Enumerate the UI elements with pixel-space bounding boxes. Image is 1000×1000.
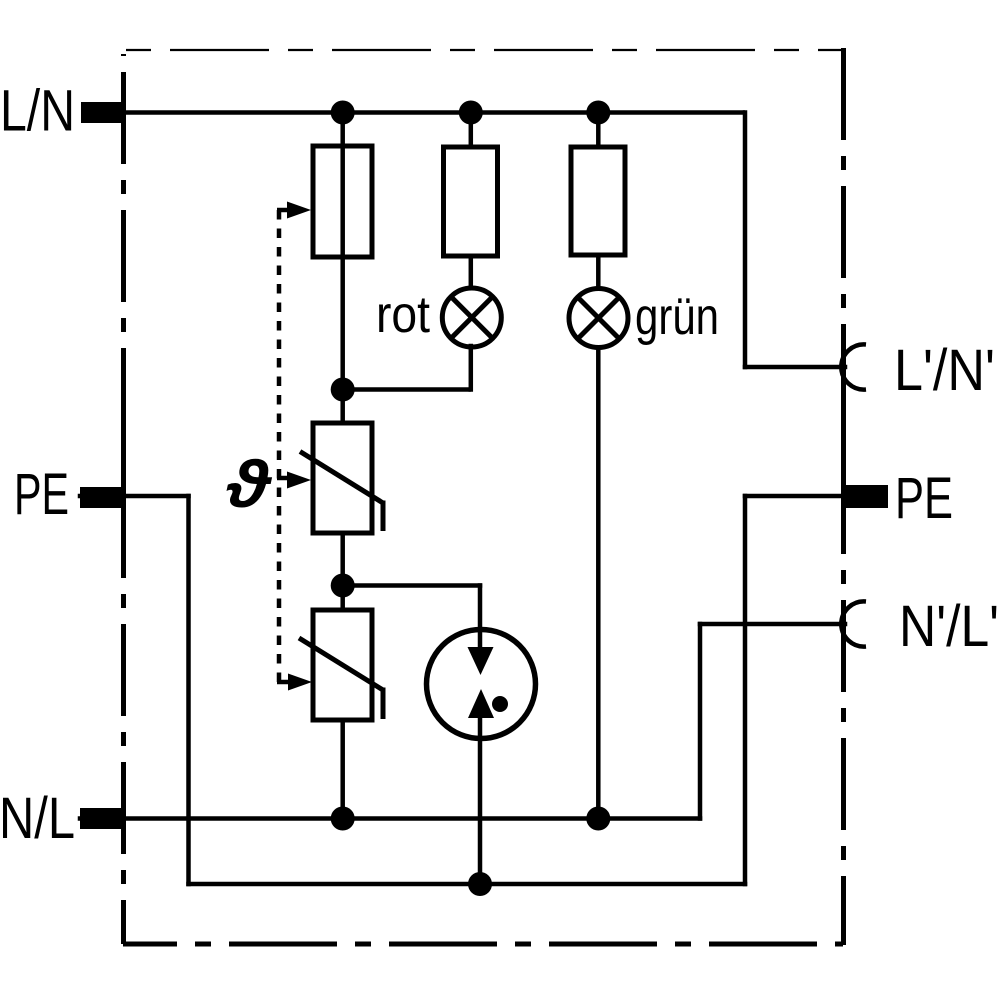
wire rot lamp down [469, 346, 474, 390]
varistor RV2 [299, 610, 383, 720]
thermal jog middle [277, 476, 290, 481]
gas discharge tube GDT [427, 630, 536, 739]
enclosure border top [126, 49, 843, 51]
wire to L'/N' terminal [745, 365, 845, 370]
resistor gruen branch [571, 147, 625, 255]
wire PE left [80, 494, 189, 499]
wire PE up right [743, 496, 748, 884]
wire varistor1 bottom to node [340, 533, 345, 610]
enclosure border bottom [123, 942, 843, 947]
enclosure border left solid piece above PE [121, 390, 126, 506]
wire L/N horizontal [81, 110, 745, 115]
svg-text:L/N: L/N [0, 79, 75, 144]
thermal jog top [277, 208, 290, 213]
fuse F1 (thermal disconnector) [313, 146, 372, 257]
junction node L/N-rot [459, 101, 483, 125]
junction node GDT-PE [468, 872, 492, 896]
terminal N/L [80, 808, 123, 829]
junction node gruen-N/L [586, 807, 610, 831]
junction node fuse-varistor1-rot [331, 378, 355, 402]
wire PE bottom horizontal [189, 882, 746, 887]
varistor RV1 [300, 423, 383, 533]
wire gruen branch upper [596, 112, 601, 147]
wire rot to node [343, 387, 471, 392]
svg-text:N/L: N/L [0, 786, 75, 851]
junction node L/N-gruen [586, 101, 610, 125]
svg-text:ϑ: ϑ [226, 448, 272, 521]
wire to N'/L' terminal [700, 622, 845, 627]
GDT arrow down [468, 647, 494, 675]
svg-text:L'/N': L'/N' [894, 338, 995, 403]
terminal arc L'/N' [841, 344, 866, 389]
svg-text:rot: rot [376, 286, 430, 344]
GDT dot [492, 696, 508, 712]
wire PE to right terminal [745, 494, 843, 499]
thermal arrow middle [287, 472, 311, 489]
terminal PE left [80, 487, 122, 508]
svg-text:grün: grün [635, 288, 719, 346]
svg-text:PE: PE [14, 462, 69, 527]
junction node varistor2-N/L [331, 807, 355, 831]
svg-text:N'/L': N'/L' [899, 594, 999, 659]
thermal arrow top [287, 202, 311, 219]
enclosure border left [121, 54, 126, 944]
thermal jog bottom [277, 680, 290, 685]
wire node to GDT [343, 583, 480, 588]
wire varistor2 bottom to N/L [340, 720, 345, 819]
enclosure border right solid piece L'/N' to PE [841, 386, 846, 490]
junction node varistor1-varistor2-GDT [331, 574, 355, 598]
junction node L/N-fuse [331, 101, 355, 125]
terminal PE right [843, 485, 888, 508]
lamp gruen [569, 289, 628, 348]
thermal sense dashed line [277, 210, 282, 683]
GDT arrow up [468, 689, 494, 718]
wire gruen lamp down to N/L [596, 347, 601, 819]
svg-text:PE: PE [895, 466, 953, 531]
thermal arrow bottom [288, 674, 312, 691]
wire rot branch upper [469, 112, 474, 147]
wire GDT bottom [478, 714, 483, 884]
wire gruen rect to lamp [596, 255, 601, 289]
terminal L/N [81, 102, 122, 123]
wire varistor1 top [340, 390, 345, 424]
lamp rot [442, 288, 501, 347]
resistor rot branch [444, 147, 498, 256]
wire PE down left [186, 496, 191, 884]
wire GDT top [478, 586, 483, 653]
wire N/L up to N'/L' [698, 624, 703, 819]
terminal arc N'/L' [841, 601, 866, 646]
wire rot rect to lamp [469, 256, 474, 289]
wire L/N to L'/N' vertical [743, 113, 748, 368]
enclosure border right [841, 48, 846, 945]
wire N/L horizontal [80, 816, 700, 821]
wire fuse branch through fuse [340, 112, 345, 390]
